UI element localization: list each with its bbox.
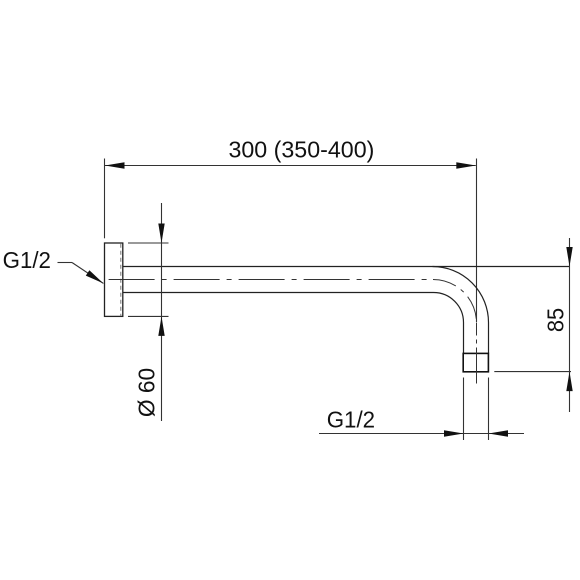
centerline horizontal (dash-dot): [109, 279, 433, 281]
dimension line 85 (vertical right): [569, 238, 571, 412]
outlet tube left edge: [463, 323, 465, 354]
arrowhead left of 300 dim: [105, 162, 125, 168]
dimension line 300: [105, 165, 476, 167]
arrowhead right of outlet dim (points left): [489, 430, 509, 436]
outlet fitting nut: [463, 353, 488, 371]
arrowhead bottom of 85 dim (points up): [566, 372, 572, 392]
dimension text 85 (rotated): [543, 308, 569, 332]
extension line flange top: [128, 242, 169, 244]
dimension text 300 (350-400): [228, 137, 374, 163]
leader arrowhead G1/2: [86, 270, 104, 283]
arm tube top edge (continues as extension line for 85): [123, 266, 570, 268]
extension line outlet right: [488, 378, 490, 441]
arrowhead top of 85 dim (points down): [566, 247, 572, 267]
centerline elbow arc (dash-dot): [433, 280, 477, 323]
svg-text:G1/2: G1/2: [3, 247, 51, 273]
centerline outlet vertical (dash-dot): [476, 323, 478, 385]
wall flange: [105, 243, 123, 316]
svg-text:300 (350-400): 300 (350-400): [228, 137, 374, 163]
svg-text:Ø 60: Ø 60: [133, 368, 159, 417]
arrowhead left of outlet dim (points right): [444, 430, 464, 436]
arrowhead top of Ø60 dim (points down): [158, 224, 164, 244]
dimension line Ø60 (vertical): [161, 203, 163, 421]
arm tube bottom edge: [123, 292, 434, 294]
dimension line G1/2 outlet (horizontal bottom): [319, 433, 524, 435]
flange hidden edge (dashed): [120, 244, 122, 316]
leader line diagonal for G1/2: [72, 263, 103, 284]
extension line fitting bottom: [494, 371, 571, 373]
extension line left (flange wall face): [104, 159, 106, 239]
extension line flange bottom: [128, 315, 169, 317]
label G1/2 (outlet thread): [327, 406, 375, 432]
svg-text:G1/2: G1/2: [327, 406, 375, 432]
svg-text:85: 85: [543, 308, 569, 332]
extension line right (outlet centre): [476, 159, 478, 323]
elbow outer curve: [433, 267, 489, 323]
arrowhead right of 300 dim: [456, 162, 476, 168]
dimension text Ø60 (rotated): [133, 368, 159, 417]
outlet tube right edge: [488, 323, 490, 354]
extension line outlet left: [463, 378, 465, 441]
arrowhead bottom of Ø60 dim (points up): [158, 316, 164, 336]
leader line horizontal for G1/2: [58, 262, 73, 264]
label G1/2 (wall thread): [3, 247, 51, 273]
elbow inner curve: [434, 293, 464, 323]
